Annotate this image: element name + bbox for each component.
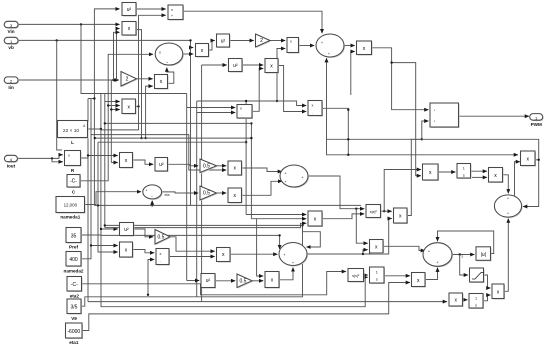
svg-text:-C-: -C- <box>71 282 78 288</box>
svg-text:u²: u² <box>159 162 164 168</box>
node AA feed <box>90 244 92 246</box>
wire product Q to product AK in1 <box>322 108 518 155</box>
node y235 mid <box>278 234 280 236</box>
divide ellipse F <box>155 43 184 66</box>
wire bus y227 to AE in3 <box>105 223 306 227</box>
block product AT <box>120 242 134 258</box>
svg-text:0.5: 0.5 <box>203 164 210 170</box>
svg-text:u²: u² <box>127 7 132 13</box>
wire bus to product AY in1 <box>257 219 264 276</box>
block u2 H <box>217 34 231 48</box>
wire branch into sum AZ right <box>303 232 321 247</box>
wire bus to product AE in1 <box>246 214 306 216</box>
input port 2 Iin <box>4 77 19 90</box>
wire u2 A to sum C <box>136 8 166 10</box>
integrator 1/s BC <box>370 267 386 284</box>
node QR crossing <box>347 109 349 111</box>
wire const 12000 to sum Y <box>85 192 142 205</box>
svg-text:35: 35 <box>71 233 77 239</box>
svg-text:s|x|²: s|x|² <box>370 210 378 214</box>
wire L out branch down <box>100 129 102 229</box>
wire Vin branch to u2 A <box>94 9 119 25</box>
wire AZ branch to product AG in2 <box>363 219 392 255</box>
wire stub to AJ in2 <box>472 176 487 178</box>
wire PWM block R to PWM port <box>459 115 529 117</box>
svg-text:x: x <box>290 40 292 44</box>
wire bus vertical x88 up <box>87 99 89 159</box>
wire product AY to sum AZ bottom <box>279 268 293 280</box>
svg-text:22 × 10: 22 × 10 <box>63 128 79 134</box>
wire bus vertical x111 <box>110 80 112 163</box>
sum ellipse Y <box>143 185 170 200</box>
wire product AT to product AU <box>133 250 155 253</box>
wire y139 left segment <box>327 138 422 140</box>
wire bus vertical x104 long <box>104 102 106 228</box>
wire bus to product AU in2 <box>148 260 154 295</box>
gain 0.5 AB <box>200 186 218 201</box>
wire u2 M to product N <box>242 64 263 66</box>
block product J <box>287 38 300 54</box>
svg-text:0.5: 0.5 <box>158 235 165 241</box>
node x246 y142 <box>245 141 247 143</box>
wire branch to saturation BG <box>460 255 468 276</box>
node K feed <box>347 154 349 156</box>
svg-text:x: x <box>160 252 162 256</box>
wire bus y123 <box>105 122 252 124</box>
node W in1 tap <box>87 154 89 156</box>
wire product AG up to R in2 <box>407 121 428 216</box>
svg-text:÷: ÷ <box>166 61 168 65</box>
wire abs BF up to sum BD top <box>438 231 494 254</box>
wire bus to product W in1 <box>88 155 118 157</box>
wire Vin to product B <box>18 23 119 25</box>
wire product O up to sum C in2 <box>136 15 166 106</box>
node Iout branch <box>51 157 53 159</box>
svg-text:u²: u² <box>221 39 226 45</box>
wire product BA to sum BD <box>383 246 425 250</box>
svg-text:2: 2 <box>260 38 263 44</box>
svg-text:Pref: Pref <box>69 245 78 250</box>
block u2 AW <box>201 274 216 289</box>
block product T (R multiply) <box>65 151 82 173</box>
wire bus y142 <box>98 141 246 143</box>
gain 0.5 AS <box>155 230 171 246</box>
svg-text:s: s <box>475 304 477 308</box>
wire divide F to product G <box>183 53 193 55</box>
wire bus y235 to AZ <box>101 235 280 249</box>
node Y bottom <box>151 204 153 206</box>
wire product AA to sum AD <box>242 168 282 172</box>
wire bus y101 to product Q in1 <box>197 101 307 106</box>
wire Iout to product T <box>17 155 62 159</box>
integrator 1/s AI <box>457 164 472 180</box>
block product W <box>120 153 134 169</box>
wire L const branch right <box>101 107 139 130</box>
node vb G corner <box>189 39 191 41</box>
wire V9 long line up bus <box>81 225 303 306</box>
wire bus to product P in1 <box>187 107 236 109</box>
wire C const to divide F <box>80 54 153 181</box>
wire product AE to block AF in2 <box>322 214 364 219</box>
block product BH <box>449 293 464 307</box>
wire bus vertical x190 <box>190 48 192 206</box>
wire product J to sum K <box>299 45 315 47</box>
block product AV <box>217 248 232 263</box>
node BD out branch <box>459 253 461 255</box>
wire gain I to product J <box>270 40 285 42</box>
wire y139 feedback to sum AL right <box>422 139 539 206</box>
block product N <box>265 59 279 74</box>
svg-text:0.5: 0.5 <box>203 191 210 197</box>
wire line y306 up to BC <box>101 229 368 307</box>
node L out <box>100 128 102 130</box>
sum circle BD <box>423 243 464 268</box>
wire gain Z to product AA <box>217 165 227 167</box>
node AZ out branch <box>362 253 364 255</box>
wire bus to u2 AW <box>187 280 200 282</box>
wire Vin branch down left bus <box>81 24 101 93</box>
block product AY <box>265 272 280 289</box>
wire const 400 to product AT in1 <box>81 246 118 259</box>
block product AJ <box>489 168 504 184</box>
wire u2 H to gain I <box>230 40 254 42</box>
wire vb line <box>18 40 193 47</box>
wire u2 X to gain Z <box>168 164 199 166</box>
svg-text:eta: eta <box>165 193 170 197</box>
node AF branch <box>355 208 357 210</box>
wire bus vertical x201 <box>201 65 203 302</box>
wire AF branch up to AH in1 <box>384 170 421 212</box>
svg-text:-6: -6 <box>83 124 86 128</box>
constant -C- eta2 AO <box>67 277 83 299</box>
node x251 top <box>250 122 252 124</box>
wire Iin branch to B in2 <box>117 29 120 81</box>
svg-text:.: . <box>290 47 291 51</box>
wire Iin to gain D <box>18 79 119 81</box>
wire product AV to sum AZ <box>230 253 277 255</box>
wire Iout branch to T in2 <box>52 158 63 161</box>
block product AA <box>228 161 243 176</box>
wire product AC to sum AD <box>242 181 283 195</box>
wire sum Y to gain AB <box>162 192 199 193</box>
gain 0.5 Z <box>200 159 218 174</box>
wire saturation BG to product BJ in1 <box>484 275 491 288</box>
wire bus y138 <box>95 137 252 139</box>
svg-text:u²: u² <box>206 278 211 284</box>
constant -6000 eta1 AQ <box>66 323 84 345</box>
wire sum AL out up to AK in2 <box>515 162 520 198</box>
wire product AU to product AV in2 <box>169 256 215 258</box>
constant 3/5 V9 AP <box>67 299 82 321</box>
wire bus to product O in3 <box>111 109 119 111</box>
block product P <box>237 105 253 120</box>
block product O (3 inputs) <box>122 99 137 115</box>
wire bus to product O in2 <box>108 105 120 107</box>
wire vb branch down <box>57 40 62 150</box>
node AF out branch <box>383 210 385 212</box>
node y138 end <box>250 137 252 139</box>
svg-text:-C-: -C- <box>70 179 77 185</box>
svg-text:1: 1 <box>475 297 477 301</box>
wire product P out to product N in2 <box>252 69 263 112</box>
node O in3 branch <box>110 108 112 110</box>
wire bus vertical x186 <box>186 94 188 281</box>
constant 400 nameda2 AN <box>64 252 84 274</box>
constant L 22e-6 S <box>58 121 89 145</box>
node Iin branch 1 <box>115 79 117 81</box>
wire bus up to sum Y bottom <box>151 201 153 206</box>
node y98 stub <box>93 97 95 99</box>
svg-text:|u|: |u| <box>481 252 486 258</box>
constant 12000 V <box>56 197 86 220</box>
input port 3 Vin <box>4 21 19 34</box>
node J bus <box>276 100 278 102</box>
svg-text:eta1: eta1 <box>69 340 79 345</box>
wire bus to product W in2 <box>111 162 117 164</box>
block product AH <box>423 164 440 181</box>
block u2 X <box>155 158 169 173</box>
gain 0.5 AX <box>237 274 253 289</box>
wire L branch down to product AH in2 <box>392 63 421 176</box>
svg-text:s: s <box>462 254 464 258</box>
wire product G to u2 H <box>209 41 215 51</box>
node y139 branch <box>421 138 423 140</box>
block u|u| BB <box>348 269 365 283</box>
svg-text:V9: V9 <box>71 316 77 321</box>
svg-text:1: 1 <box>376 271 378 275</box>
block u2 AR <box>120 223 135 237</box>
wire bus to product AT in2 <box>98 205 118 252</box>
node vb branch <box>56 39 58 41</box>
wire long bus y205 <box>94 204 361 206</box>
block product L <box>357 41 373 56</box>
wire product W to u2 X <box>133 160 154 164</box>
svg-text:.: . <box>240 113 241 117</box>
wire bus vertical x104 <box>104 94 106 102</box>
svg-text:x: x <box>68 154 70 158</box>
wire AF branch down to product BA in1 <box>356 209 367 244</box>
node AU bus <box>147 294 149 296</box>
svg-text:u²: u² <box>124 227 129 233</box>
wire sum BD to abs BF <box>452 254 474 256</box>
svg-text:.: . <box>160 259 161 263</box>
wire product AK out join <box>535 159 539 161</box>
node E in2 tap <box>144 137 146 139</box>
wire gain D to product E <box>137 78 153 80</box>
wire bus to AA in2 <box>91 135 226 246</box>
svg-text:x: x <box>159 51 161 55</box>
input port 1 vb <box>4 37 19 50</box>
wire Iin branch to B in3 <box>114 32 120 80</box>
wire block AF to product AG <box>381 210 392 212</box>
wire product N to product Q in2 <box>278 66 306 112</box>
block u2 M <box>229 59 244 73</box>
svg-text:x: x <box>240 107 242 111</box>
wire integrator BI to product BJ in2 <box>483 295 490 301</box>
svg-text:.: . <box>68 161 69 165</box>
saturation block BG <box>470 268 485 283</box>
svg-text:1: 1 <box>463 167 465 171</box>
input port 4 Iout <box>4 155 18 168</box>
wire product BH to integrator BI <box>463 299 468 301</box>
svg-text:u²: u² <box>233 63 238 69</box>
wire eta2 long line to BB in1 <box>82 272 346 295</box>
svg-text:s|x|²: s|x|² <box>352 274 360 278</box>
node L branch <box>390 61 392 63</box>
block product B (3 inputs) <box>122 22 137 37</box>
wire bus y225 <box>105 224 303 226</box>
gain 2 I <box>256 34 272 48</box>
wire integrator BC to product BE <box>384 275 410 277</box>
wire product L to PWM block R in1 <box>372 48 428 110</box>
wire product BJ up to AL bottom <box>504 219 508 292</box>
block sum C <box>168 5 184 21</box>
svg-text:Iout: Iout <box>7 163 16 168</box>
wire sum AD out to block AF in1 <box>308 176 364 209</box>
wire product BE to sum BD bottom <box>425 268 438 280</box>
block product E <box>155 75 169 90</box>
node y138 start <box>94 137 96 139</box>
block product AC <box>228 188 243 204</box>
svg-text:2: 2 <box>126 77 129 83</box>
wire bus to u2 M <box>202 64 227 66</box>
wire Pref to u2 AR <box>81 229 118 235</box>
node O in2 branch <box>107 104 109 106</box>
wire gain AB to product AC <box>217 192 227 194</box>
block product Q <box>308 101 323 117</box>
wire bus vertical x196 <box>196 101 198 297</box>
wire bus to product P in2 <box>197 112 236 114</box>
block product BA <box>370 240 385 255</box>
svg-text:vb: vb <box>8 45 14 50</box>
output port 1 PWM <box>530 114 544 127</box>
wire sum K to product L <box>344 45 355 47</box>
wire bus to product O in1 <box>105 101 120 103</box>
svg-text:-6000: -6000 <box>67 329 80 335</box>
wire bus vertical x91 up <box>90 99 92 135</box>
wire const L out <box>88 94 187 130</box>
wire u2 AR to gain AS <box>134 229 154 237</box>
block product AU <box>156 249 170 266</box>
wire long line y301 to product BH <box>88 301 447 303</box>
block u|u| AF <box>366 205 382 219</box>
node AK out join <box>538 159 540 161</box>
node O out join <box>137 105 139 107</box>
svg-text:s: s <box>463 174 465 178</box>
sum circle K <box>316 34 345 58</box>
wire bus vertical x98 up <box>97 142 99 205</box>
wire product E to divide F bottom <box>167 68 174 84</box>
svg-text:x: x <box>312 104 314 108</box>
wire bus up to product E in2 <box>146 86 153 138</box>
node y225 start <box>104 224 106 226</box>
wire gain AS to product AV in1 <box>170 237 215 251</box>
svg-text:eta2: eta2 <box>70 293 80 298</box>
node y139 left <box>347 138 349 140</box>
svg-text:nameda2: nameda2 <box>64 268 84 273</box>
block product AE (3 inputs) <box>308 211 323 227</box>
node AT bus <box>97 204 99 206</box>
node y123 start <box>104 122 106 124</box>
wire bus to product AE in2 <box>251 218 306 220</box>
node y306 start <box>100 228 102 230</box>
wire u2 AW to gain AX <box>215 280 235 282</box>
block product AK <box>521 151 537 167</box>
block product BE <box>412 273 427 288</box>
wire gain AX to product AY in2 <box>252 280 263 282</box>
wire bus to product L in2 <box>351 52 355 96</box>
wire K bottom feed <box>327 58 349 155</box>
svg-text:s: s <box>376 278 378 282</box>
wire bus vertical x251 <box>250 123 252 218</box>
wire eta1 long line to product BE in2 <box>82 283 410 331</box>
sum circle AD <box>280 165 309 188</box>
wire sum AZ to product BA in2 <box>307 250 368 254</box>
svg-text:3/5: 3/5 <box>71 304 78 310</box>
node Iin branch 2 <box>112 79 114 81</box>
node B out join <box>140 137 142 139</box>
svg-text:L: L <box>71 140 74 145</box>
wire block BB to integrator BC <box>364 274 368 276</box>
node x246 top <box>245 100 247 102</box>
node V9 join <box>301 224 303 226</box>
constant C -C- U <box>67 175 81 195</box>
wire product AJ to sum AL top <box>503 175 509 194</box>
sum circle AL <box>494 195 522 218</box>
block u2 A <box>122 3 137 17</box>
sum circle AZ <box>279 243 308 267</box>
wire bus stub y98 <box>88 98 94 100</box>
svg-text:0.5: 0.5 <box>240 279 247 285</box>
abs block BF <box>476 247 492 261</box>
wire sum C to sum K top <box>183 11 322 33</box>
block product AG <box>394 208 409 224</box>
node Vin branch <box>80 23 82 25</box>
block product G <box>196 44 210 58</box>
svg-text:Vin: Vin <box>8 29 15 34</box>
svg-text:x: x <box>171 8 173 12</box>
block PWM generator R <box>430 103 460 128</box>
svg-text:12,000: 12,000 <box>64 203 78 208</box>
wire bus to product J in2 <box>277 49 285 102</box>
wire product AH to integrator AI <box>438 171 455 173</box>
wire product B out down bus <box>136 30 142 139</box>
constant 35 Pref AM <box>66 228 82 250</box>
wire product T out to bus down <box>81 158 89 302</box>
wire integrator AI to product AJ <box>471 170 487 172</box>
gain 2 D <box>121 72 138 88</box>
svg-text:400: 400 <box>69 257 78 263</box>
svg-text:Iin: Iin <box>8 85 14 90</box>
integrator 1/s BI <box>469 294 484 310</box>
wire bus vertical x246 <box>245 101 247 215</box>
block product BJ <box>492 284 505 300</box>
wire Vin branch down bus <box>93 24 95 205</box>
svg-text:nameda1: nameda1 <box>60 214 80 219</box>
svg-text:.: . <box>312 111 313 115</box>
svg-text:PWM: PWM <box>531 122 542 127</box>
